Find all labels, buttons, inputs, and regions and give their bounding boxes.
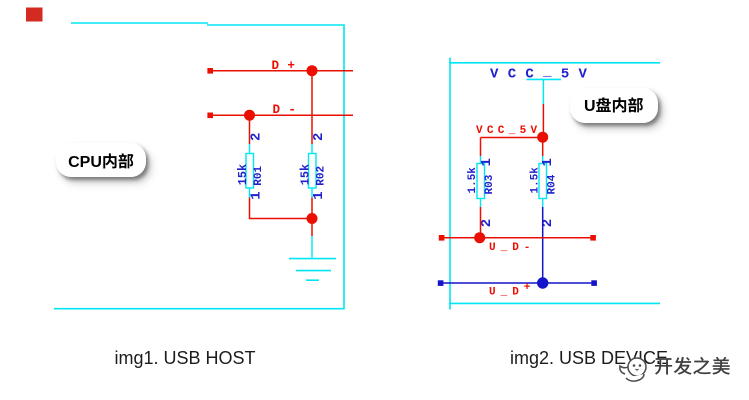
junction dot bottom bbox=[307, 213, 318, 224]
resistor R04 pin 2 stub bbox=[542, 199, 544, 208]
svg-text:R02: R02 bbox=[316, 166, 328, 186]
svg-text:1: 1 bbox=[479, 158, 495, 166]
resistor R03 pin 2 stub bbox=[480, 199, 482, 208]
caption img2 bbox=[510, 348, 668, 369]
resistor R02 body bbox=[309, 154, 317, 189]
wire U_D- horizontal bbox=[442, 237, 594, 239]
node D+ endpoint square bbox=[207, 68, 213, 74]
wire R03 to U_D- bbox=[480, 207, 482, 238]
wire D- horizontal bbox=[208, 114, 353, 116]
caption img1 bbox=[115, 348, 256, 369]
svg-text:+: + bbox=[524, 282, 531, 294]
resistor R01 body bbox=[246, 154, 254, 189]
svg-text:U_D: U_D bbox=[489, 286, 524, 298]
svg-text:1: 1 bbox=[311, 191, 327, 199]
label U盘内部 bbox=[570, 88, 659, 123]
wire R01 to bottom rail bbox=[249, 198, 251, 220]
node U_D+ left square bbox=[438, 280, 444, 286]
svg-text:1.5k: 1.5k bbox=[529, 167, 541, 194]
node U_D+ right square bbox=[591, 280, 597, 286]
wire from D- down to R01 bbox=[249, 115, 251, 144]
node U_D- right square bbox=[590, 235, 596, 241]
power symbol stem bbox=[542, 79, 544, 104]
wire VCC dot to R04 bbox=[542, 138, 544, 157]
CPU inner box (left sheet border) bbox=[71, 22, 208, 24]
node marker square (top-left) bbox=[26, 8, 43, 22]
svg-text:R03: R03 bbox=[484, 174, 496, 194]
ground bbox=[289, 259, 336, 281]
wire from D+ down through D- to R02 bbox=[311, 71, 313, 144]
svg-text:U_D-: U_D- bbox=[489, 242, 535, 254]
resistor R04 body bbox=[539, 164, 547, 199]
junction dot on D+ bbox=[307, 65, 318, 76]
svg-text:R01: R01 bbox=[253, 165, 265, 185]
label CPU内部 bbox=[56, 143, 146, 177]
junction dot VCC bbox=[537, 132, 548, 143]
svg-text:1: 1 bbox=[540, 158, 556, 166]
svg-text:1.5k: 1.5k bbox=[467, 167, 479, 194]
wire VCC rail bbox=[481, 137, 544, 139]
ground stem bbox=[311, 236, 313, 258]
junction dot U_D+ bbox=[537, 277, 548, 288]
node U_D- left square bbox=[439, 235, 445, 241]
svg-text:2: 2 bbox=[479, 219, 495, 227]
wire R04 to U_D+ (blue) bbox=[542, 207, 544, 283]
resistor R03 body bbox=[477, 164, 485, 199]
svg-text:1: 1 bbox=[249, 191, 265, 199]
svg-text:2: 2 bbox=[311, 133, 327, 141]
wire U_D+ horizontal (blue) bbox=[441, 282, 595, 284]
svg-text:2: 2 bbox=[249, 133, 265, 141]
wire D+ horizontal bbox=[208, 70, 353, 72]
power symbol bar bbox=[527, 78, 562, 80]
svg-text:15k: 15k bbox=[298, 164, 312, 185]
svg-text:R04: R04 bbox=[546, 174, 558, 194]
bottom joining wire bbox=[250, 218, 313, 220]
svg-text:15k: 15k bbox=[236, 164, 250, 185]
resistor R02 pin 1 stub bbox=[311, 188, 313, 198]
wire R02 down to ground rail bbox=[311, 198, 313, 237]
svg-text:VCC_5V: VCC_5V bbox=[476, 125, 541, 137]
wire power to VCC node bbox=[542, 104, 544, 138]
junction dot U_D- bbox=[474, 232, 485, 243]
resistor R03 pin 1 stub bbox=[480, 156, 482, 164]
resistor R02 pin 2 stub bbox=[311, 144, 313, 154]
node D- endpoint square bbox=[207, 113, 213, 119]
resistor R04 pin 1 stub bbox=[542, 156, 544, 164]
svg-text:D -: D - bbox=[273, 103, 297, 117]
USB device box (right sheet border) bbox=[449, 58, 451, 310]
svg-text:D +: D + bbox=[272, 59, 296, 73]
resistor R01 pin 1 stub bbox=[249, 188, 251, 198]
junction dot on D- bbox=[244, 110, 255, 121]
wire VCC to R03 bbox=[480, 138, 482, 157]
resistor R01 pin 2 stub bbox=[249, 144, 251, 154]
